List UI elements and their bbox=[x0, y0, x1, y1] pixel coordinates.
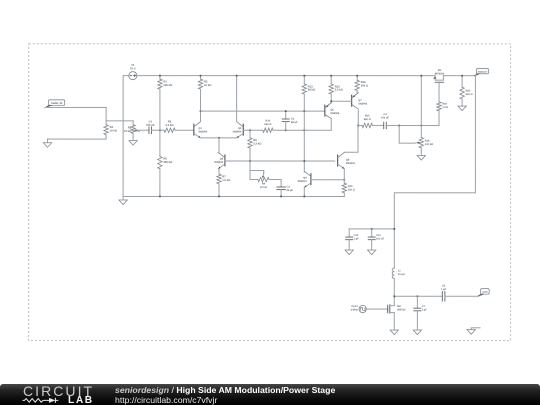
MOSFET M2 bbox=[388, 296, 407, 326]
canvas dashed border bbox=[29, 44, 511, 341]
wire Q4 base to R14 node bbox=[311, 179, 344, 181]
wire CLK1 to M2 gate bbox=[366, 308, 387, 310]
svg-text:4 MHz: 4 MHz bbox=[351, 309, 359, 312]
resistor R14 bbox=[342, 180, 355, 197]
wire C1 to R5 bbox=[152, 129, 164, 131]
resistor R4 bbox=[48, 121, 118, 139]
svg-text:22 µF: 22 µF bbox=[287, 189, 294, 192]
wire M1 drain to flag bbox=[443, 75, 475, 77]
wire Q7 collector down bbox=[357, 110, 359, 126]
svg-text:150 Ω: 150 Ω bbox=[361, 85, 369, 88]
wire Q2 collector to top rail bbox=[236, 76, 238, 122]
resistor R6 bbox=[158, 130, 173, 196]
potentiometer R18 bbox=[414, 125, 433, 151]
svg-text:2.2 kΩ: 2.2 kΩ bbox=[253, 143, 262, 146]
wire gate divider from rail bbox=[420, 76, 422, 126]
svg-text:150 Ω: 150 Ω bbox=[348, 188, 355, 191]
svg-text:10 kΩ: 10 kΩ bbox=[110, 130, 118, 133]
resistor R8 bbox=[248, 130, 262, 161]
svg-text:2.2 kΩ: 2.2 kΩ bbox=[165, 124, 174, 127]
resistor R13 bbox=[329, 76, 344, 103]
ground under R4 bbox=[43, 139, 51, 147]
svg-text:500 Ω: 500 Ω bbox=[466, 93, 473, 96]
svg-text:100 kΩ: 100 kΩ bbox=[425, 143, 433, 146]
resistor R5 bbox=[164, 121, 175, 133]
svg-text:2N3904: 2N3904 bbox=[232, 131, 242, 134]
svg-text:1 µF: 1 µF bbox=[354, 238, 360, 241]
svg-text:100 nF: 100 nF bbox=[376, 238, 385, 241]
voltage source V1 bbox=[129, 64, 137, 80]
wire Q5 collector down bbox=[330, 119, 332, 131]
wire C5 to LOAD flag bbox=[445, 295, 480, 296]
capacitor C10 bbox=[346, 229, 359, 247]
wire C4 to R19 bbox=[386, 124, 439, 126]
svg-text:LOAD: LOAD bbox=[482, 291, 488, 294]
wire Q3 base rail bbox=[225, 160, 335, 162]
svg-text:2N3906: 2N3906 bbox=[330, 112, 340, 115]
node LOAD flag bbox=[478, 289, 489, 297]
svg-text:10 kΩ: 10 kΩ bbox=[204, 84, 212, 87]
capacitor C1 bbox=[146, 121, 155, 134]
svg-text:68 pF: 68 pF bbox=[291, 121, 298, 124]
wire feedback rail bbox=[243, 129, 262, 131]
wire emitter link Q1 Q2 bbox=[201, 137, 237, 139]
transistor Q7 bbox=[352, 93, 368, 109]
wire bottom ground rail bbox=[123, 195, 344, 197]
wire modulated supply drop bbox=[394, 76, 475, 269]
svg-text:70 V: 70 V bbox=[130, 67, 136, 70]
transistor Q5 bbox=[325, 103, 340, 119]
capacitor C4 bbox=[381, 113, 390, 129]
capacitor C11 bbox=[368, 229, 384, 247]
node Audio_IN flag bbox=[44, 100, 64, 108]
svg-text:10 µH: 10 µH bbox=[398, 273, 405, 276]
wire Audio_IN to divider bbox=[45, 107, 106, 120]
svg-text:Audio_IN: Audio_IN bbox=[51, 102, 63, 105]
ground under C10 bbox=[345, 246, 353, 254]
capacitor C3 bbox=[277, 186, 294, 197]
wire top rail bbox=[123, 76, 435, 197]
resistor R16 bbox=[355, 76, 369, 93]
resistor R1 bbox=[158, 76, 173, 131]
resistor R7 bbox=[217, 169, 231, 197]
svg-text:10 kΩ: 10 kΩ bbox=[260, 186, 267, 189]
transistor Q3 bbox=[214, 152, 225, 168]
ground under C7 bbox=[413, 326, 421, 334]
MOSFET M1 bbox=[433, 69, 445, 87]
wire output node bbox=[394, 295, 442, 297]
svg-text:2N3904: 2N3904 bbox=[298, 180, 308, 183]
wire Q4 emitter down bbox=[303, 187, 305, 196]
capacitor C7 bbox=[414, 296, 427, 326]
resistor R15 bbox=[358, 115, 384, 128]
wire R4 to R3 bbox=[106, 120, 133, 122]
wire bypass rail bbox=[349, 228, 394, 230]
svg-text:1 kΩ: 1 kΩ bbox=[442, 106, 448, 109]
ground under R18 bbox=[417, 152, 425, 160]
potentiometer R3 bbox=[124, 121, 140, 137]
wire R5 to Q1 base bbox=[175, 129, 194, 131]
wire R10 to Q5 collector bbox=[273, 129, 331, 131]
wire second stage rail bbox=[201, 110, 325, 112]
ground at bottom rail left end bbox=[119, 196, 127, 204]
capacitor C2 bbox=[282, 111, 298, 130]
svg-text:1 µF: 1 µF bbox=[441, 288, 447, 291]
ground near LOAD bbox=[467, 328, 480, 334]
svg-text:560 Ω: 560 Ω bbox=[264, 123, 271, 126]
svg-text:1 µF: 1 µF bbox=[422, 308, 428, 311]
svg-text:68 kΩ: 68 kΩ bbox=[308, 89, 316, 92]
transistor Q4 bbox=[298, 171, 311, 187]
svg-text:2N3904: 2N3904 bbox=[346, 162, 356, 165]
transistor Q1 bbox=[194, 122, 208, 138]
clock source CLK1 bbox=[351, 305, 367, 312]
svg-text:10 kΩ: 10 kΩ bbox=[124, 130, 132, 133]
svg-text:560 Ω: 560 Ω bbox=[364, 118, 371, 121]
capacitor C5 bbox=[441, 285, 447, 302]
transistor Q6 bbox=[338, 152, 356, 168]
resistor R10 bbox=[263, 120, 273, 133]
ground under R3 bbox=[129, 137, 137, 145]
svg-text:1.0 kΩ: 1.0 kΩ bbox=[222, 179, 231, 182]
svg-text:470 nF: 470 nF bbox=[381, 117, 390, 120]
svg-text:390 kΩ: 390 kΩ bbox=[163, 161, 173, 164]
resistor R12 bbox=[302, 76, 316, 112]
CircuitLab logo bbox=[23, 384, 94, 398]
footer metadata text bbox=[115, 385, 335, 395]
wire R3 wiper to C1 bbox=[137, 129, 149, 131]
wire Q3 collector bbox=[218, 138, 220, 153]
resistor R20 bbox=[460, 76, 473, 103]
ground under C11 bbox=[367, 246, 375, 254]
svg-text:2N3904: 2N3904 bbox=[198, 131, 208, 134]
svg-text:2N3906: 2N3906 bbox=[358, 102, 368, 105]
svg-text:IRF9530: IRF9530 bbox=[435, 73, 445, 76]
resistor R2 bbox=[198, 76, 212, 112]
wire Q7 base bbox=[331, 100, 351, 102]
resistor R19 bbox=[437, 83, 448, 126]
svg-text:IRF510: IRF510 bbox=[397, 309, 406, 312]
footer bar bbox=[0, 384, 540, 405]
transistor Q2 bbox=[232, 122, 243, 138]
svg-text:200 kΩ: 200 kΩ bbox=[163, 84, 173, 87]
wire Q1 collector bbox=[200, 111, 202, 122]
potentiometer R9 bbox=[250, 161, 269, 189]
ground under R20 bbox=[458, 102, 466, 110]
svg-text:470 nF: 470 nF bbox=[146, 124, 155, 127]
wire Q6 emitter bbox=[343, 169, 345, 180]
svg-text:MODOUT: MODOUT bbox=[478, 71, 488, 74]
inductor L1 bbox=[392, 268, 405, 278]
wire Q6 collector jog bbox=[344, 125, 358, 152]
wire R9 to C3 bbox=[269, 180, 281, 187]
wire branch to R18 wiper bbox=[399, 125, 414, 143]
ground under M2 bbox=[390, 326, 398, 334]
svg-text:2N3904: 2N3904 bbox=[214, 161, 224, 164]
svg-text:2.2 kΩ: 2.2 kΩ bbox=[335, 89, 344, 92]
node MODOUT flag bbox=[474, 68, 489, 76]
wire Q4 collector up bbox=[303, 111, 305, 172]
